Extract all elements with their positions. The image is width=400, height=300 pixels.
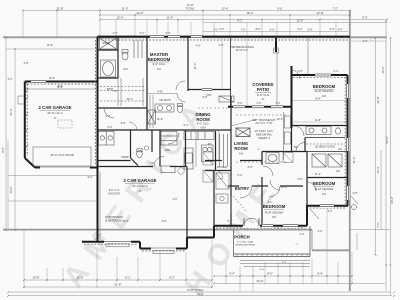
attic access garage <box>58 120 72 128</box>
entry sidelight lines <box>230 196 232 214</box>
svg-text:FLAT CEILING: FLAT CEILING <box>265 211 284 215</box>
NE bed south wall <box>292 125 348 127</box>
right dim col 3 <box>385 21 387 291</box>
powder sink <box>144 146 148 150</box>
svg-text:12'-4": 12'-4" <box>221 7 228 11</box>
mud hall door arc <box>214 170 223 179</box>
svg-text:BUTLER: BUTLER <box>217 166 227 169</box>
hall closet shelves <box>133 40 135 58</box>
svg-text:W/ BROOM FINISH: W/ BROOM FINISH <box>235 245 255 247</box>
interior walls <box>98 37 348 238</box>
left garage south wall <box>35 167 98 169</box>
bottom dim left row 2 <box>24 286 212 288</box>
svg-text:5'-0": 5'-0" <box>362 15 368 19</box>
svg-text:52'-0": 52'-0" <box>385 136 389 143</box>
svg-text:(2) SHELF & ROD: (2) SHELF & ROD <box>315 146 335 149</box>
svg-text:ENTRY: ENTRY <box>235 186 250 191</box>
svg-text:3'-8": 3'-8" <box>121 122 126 125</box>
svg-text:3'-0": 3'-0" <box>220 28 225 31</box>
svg-text:24'-4": 24'-4" <box>256 279 263 283</box>
svg-text:12'-8": 12'-8" <box>316 11 323 15</box>
mud south wall <box>98 160 131 162</box>
window nook south (interior) <box>202 88 212 92</box>
NE bath toilet <box>336 128 341 134</box>
bottom total dim line 2 <box>8 295 392 297</box>
north wall main house <box>98 36 351 38</box>
svg-text:11'-4": 11'-4" <box>193 63 197 70</box>
window bedroom A east mid <box>346 138 350 151</box>
svg-text:24'-0": 24'-0" <box>136 11 143 15</box>
patio interior extension <box>276 52 278 106</box>
svg-text:8'-8": 8'-8" <box>256 28 261 31</box>
svg-text:7'-2": 7'-2" <box>150 162 155 165</box>
hall east wall <box>213 171 215 226</box>
wic rods <box>117 78 119 106</box>
bottom garage south wall west part <box>82 241 140 243</box>
svg-text:2'-8": 2'-8" <box>219 44 224 47</box>
svg-text:PAN.: PAN. <box>165 149 171 152</box>
svg-text:6'-0": 6'-0" <box>257 102 262 105</box>
svg-text:74'-0": 74'-0" <box>196 292 203 296</box>
bottom garage west wall <box>97 168 99 242</box>
svg-text:16'-0 x 8'-0 OH DR: 16'-0 x 8'-0 OH DR <box>50 153 73 157</box>
garage door left wing <box>33 147 91 170</box>
storage box garage <box>161 166 175 173</box>
living room north wall <box>228 106 292 108</box>
svg-text:◊◊◊: ◊◊◊ <box>239 152 244 156</box>
bath wc wall <box>117 37 119 78</box>
svg-text:LIN: LIN <box>338 148 342 151</box>
svg-text:21'-0": 21'-0" <box>9 108 13 115</box>
right eave dim line <box>350 228 390 230</box>
svg-text:◊◊◊: ◊◊◊ <box>157 67 162 71</box>
svg-text:6'-0": 6'-0" <box>108 126 113 129</box>
svg-text:AT 16" O.C.: AT 16" O.C. <box>236 49 249 52</box>
bottom total dim line 1 <box>8 291 390 293</box>
living east builtins <box>284 112 291 160</box>
hall south wall <box>262 151 307 153</box>
svg-text:5'-4": 5'-4" <box>330 28 335 31</box>
svg-text:5'-2": 5'-2" <box>238 174 243 177</box>
wall hatch ticks garage left <box>26 80 28 148</box>
linen closets <box>312 154 326 167</box>
entry double door opening <box>243 218 260 228</box>
window garage north <box>31 80 46 84</box>
bath shower wall <box>98 49 119 51</box>
left dim col 2 <box>14 49 16 230</box>
eave corner small vertical <box>311 230 313 251</box>
living leader line <box>231 120 256 127</box>
right dim col 4 <box>390 38 392 295</box>
svg-text:6'-4": 6'-4" <box>229 272 235 276</box>
interior extra detail lines <box>18 38 308 240</box>
hall closets <box>203 152 213 165</box>
master closet hatch <box>149 95 151 128</box>
svg-text:8'-0": 8'-0" <box>282 262 287 264</box>
master wc toilet <box>178 106 183 113</box>
fixtures mud/laundry <box>99 132 180 173</box>
garage dim texts <box>49 77 63 89</box>
NE bedroom north wall <box>292 74 348 76</box>
svg-text:◊⊙◊: ◊⊙◊ <box>200 126 206 130</box>
SE corner note diagonal <box>310 196 358 219</box>
master east wall <box>187 37 189 91</box>
svg-text:9'-2": 9'-2" <box>169 276 175 280</box>
bath/master divider <box>146 37 148 130</box>
svg-text:2'-0": 2'-0" <box>318 230 323 233</box>
svg-text:3'-0": 3'-0" <box>276 102 281 105</box>
south wall entry/bedroomB <box>214 225 307 227</box>
svg-text:4'-6": 4'-6" <box>113 32 118 35</box>
pantry cabinet <box>161 132 177 146</box>
svg-text:10'-0": 10'-0" <box>281 186 287 189</box>
shower <box>100 38 117 49</box>
living west wall <box>230 96 232 171</box>
powder diagonal <box>131 158 139 166</box>
door arcs <box>154 70 316 191</box>
hall bath tub <box>266 153 279 164</box>
svg-text:6'-0": 6'-0" <box>166 32 171 35</box>
bottom garage south jog <box>139 242 141 249</box>
svg-text:2 CAR GARAGE: 2 CAR GARAGE <box>124 178 157 183</box>
fixtures master bath <box>100 38 186 124</box>
svg-text:◊◊◊: ◊◊◊ <box>322 192 327 196</box>
svg-text:11'-2": 11'-2" <box>315 173 321 176</box>
tub <box>101 60 116 77</box>
driveway lines left <box>6 49 97 229</box>
pantry door arc <box>168 133 179 144</box>
window living north 2 <box>252 105 264 109</box>
porch edge hatch <box>236 254 309 257</box>
svg-text:6'-4": 6'-4" <box>334 70 339 73</box>
upper cabinet band <box>184 132 214 140</box>
top dim row 1 <box>23 10 350 12</box>
svg-text:6'-6": 6'-6" <box>270 28 275 31</box>
svg-text:15'-4": 15'-4" <box>315 98 321 101</box>
master door arc <box>177 94 186 103</box>
garage side steps <box>18 95 24 97</box>
garage door bottom 1 <box>104 240 131 247</box>
svg-text:9'-2": 9'-2" <box>237 18 243 22</box>
windows (white gap + lines) <box>31 35 350 228</box>
wall hatch dashes (insulation) <box>27 40 348 251</box>
svg-text:SHEET 4: SHEET 4 <box>258 136 270 140</box>
patio posts <box>274 48 279 53</box>
porch notes <box>235 241 299 272</box>
top dim row 5 <box>203 31 348 33</box>
master shower <box>148 110 156 124</box>
svg-text:3'-2": 3'-2" <box>328 210 333 213</box>
svg-text:9'-8": 9'-8" <box>162 220 167 223</box>
svg-text:4'-6": 4'-6" <box>218 178 223 181</box>
living ceiling dash <box>236 114 288 116</box>
nook south wall <box>188 89 231 91</box>
powder east wall <box>151 130 153 152</box>
svg-text:PORCH: PORCH <box>234 235 250 240</box>
svg-text:SLAB PER ENG.: SLAB PER ENG. <box>105 220 124 223</box>
svg-text:MA. BATH: MA. BATH <box>159 99 170 102</box>
left dim col 1 <box>5 37 7 230</box>
svg-text:4" CONC. SLAB: 4" CONC. SLAB <box>237 241 253 244</box>
wic south wall <box>98 107 148 109</box>
top dim row 2 <box>100 14 350 16</box>
left garage north wall <box>25 81 98 83</box>
svg-text:21'-8": 21'-8" <box>157 118 163 121</box>
bedroom A south wall <box>306 205 348 207</box>
svg-text:3'-0": 3'-0" <box>173 198 178 201</box>
svg-text:11'-0": 11'-0" <box>122 7 129 11</box>
svg-text:SHWR: SHWR <box>102 42 110 45</box>
garage-entry link wall <box>187 237 214 239</box>
top dim row 4 <box>203 22 387 24</box>
water heater bottom garage <box>178 168 184 174</box>
garage door bottom 2 <box>151 247 176 254</box>
dim texts sides (rotated) <box>1 66 394 227</box>
window bedroom B south <box>283 224 298 228</box>
bottom dim right row 1 <box>214 275 352 277</box>
NE closet rod <box>306 143 345 145</box>
window NE bedroom north <box>315 73 331 77</box>
svg-text:3'-6": 3'-6" <box>298 178 303 181</box>
svg-text:12'-4": 12'-4" <box>259 269 265 271</box>
svg-text:2 CAR GARAGE: 2 CAR GARAGE <box>39 105 72 110</box>
svg-text:PATIO: PATIO <box>257 87 270 92</box>
svg-text:7'-2": 7'-2" <box>332 7 338 11</box>
svg-text:11'-4": 11'-4" <box>167 15 174 19</box>
svg-text:21'-8": 21'-8" <box>47 44 53 47</box>
kitchen south wall <box>205 170 231 172</box>
svg-text:5'-0": 5'-0" <box>228 220 233 223</box>
svg-text:4'-2": 4'-2" <box>214 28 219 31</box>
master vanity <box>155 104 174 112</box>
svg-text:BEDROOM: BEDROOM <box>263 204 286 209</box>
svg-text:TOTAL: TOTAL <box>186 7 195 11</box>
wic shelves <box>100 86 145 88</box>
svg-text:21'-8 x 21'-0: 21'-8 x 21'-0 <box>47 111 63 115</box>
svg-text:21'-0 x 22'-0: 21'-0 x 22'-0 <box>132 184 148 188</box>
living south wall <box>205 160 222 162</box>
svg-text:6'-2": 6'-2" <box>106 115 111 118</box>
entry north wall <box>228 185 239 187</box>
NE closet door arc <box>296 143 305 152</box>
bedroom B door arc <box>269 186 280 197</box>
svg-text:4'-4": 4'-4" <box>338 28 343 31</box>
patio west edge <box>230 38 232 107</box>
svg-text:2'-0": 2'-0" <box>363 40 368 43</box>
garage east wall upper <box>186 167 188 238</box>
svg-text:ROOM: ROOM <box>234 146 248 151</box>
kitchen west wall <box>185 130 187 167</box>
svg-text:BEDROOM: BEDROOM <box>313 181 336 186</box>
svg-text:6'-8": 6'-8" <box>353 192 358 195</box>
svg-text:8'-0": 8'-0" <box>1 147 5 153</box>
svg-text:12'-0": 12'-0" <box>116 15 123 19</box>
hall door arc <box>104 108 114 118</box>
dim texts bottom <box>32 272 322 297</box>
window living north 3 <box>271 105 283 109</box>
NE bath west wall <box>291 126 293 152</box>
svg-text:9'-0" CLG.: 9'-0" CLG. <box>153 62 166 66</box>
svg-text:18'-4": 18'-4" <box>246 11 253 15</box>
island <box>202 145 214 162</box>
master south dim <box>147 93 177 95</box>
west counter band <box>184 148 193 169</box>
svg-text:9'-8": 9'-8" <box>308 28 313 31</box>
scattered dim texts row y31 <box>214 28 343 31</box>
fixtures NE bath / closets <box>266 126 345 167</box>
entry door arcs <box>244 218 252 226</box>
svg-text:BA.: BA. <box>294 146 298 149</box>
window bedroom A east <box>346 84 350 98</box>
svg-text:KIT.: KIT. <box>208 143 212 146</box>
powder west wall <box>130 130 132 158</box>
svg-text:5'-2": 5'-2" <box>140 32 145 35</box>
bar counter <box>219 96 234 102</box>
svg-text:5'-0": 5'-0" <box>113 90 118 93</box>
entry north door arc <box>240 186 252 198</box>
svg-text:4'-0": 4'-0" <box>300 233 305 236</box>
bedroom A west wall <box>306 152 308 206</box>
hall closet B <box>283 153 293 163</box>
svg-text:3'-1": 3'-1" <box>268 201 273 204</box>
svg-text:9'-8": 9'-8" <box>157 90 163 94</box>
label underlines <box>40 62 334 240</box>
NE bedroom west wall <box>291 66 293 128</box>
window master north 2 <box>168 35 180 39</box>
right dim col 2 <box>380 150 382 230</box>
svg-text:W.C.: W.C. <box>123 68 129 71</box>
svg-text:FLAT CEILING: FLAT CEILING <box>315 89 334 93</box>
corridor wall <box>98 129 232 131</box>
svg-text:4'-0": 4'-0" <box>8 78 13 81</box>
svg-text:7'-0": 7'-0" <box>241 28 246 31</box>
svg-text:3'-0": 3'-0" <box>238 102 243 105</box>
svg-text:5'-4": 5'-4" <box>184 124 189 127</box>
window bedroom A south <box>320 204 334 208</box>
svg-text:60'-0": 60'-0" <box>390 196 394 203</box>
svg-text:9'-0": 9'-0" <box>88 176 93 179</box>
bedroom A north wall <box>307 177 348 179</box>
svg-text:9'-8": 9'-8" <box>203 96 208 99</box>
watermark diagonal text <box>57 88 289 300</box>
bottom dim right row 2 <box>214 283 385 285</box>
window entry side <box>262 224 273 228</box>
kitchen east wall <box>215 131 217 171</box>
svg-text:◊◊◊: ◊◊◊ <box>322 94 327 98</box>
porch slab <box>234 226 311 257</box>
room labels <box>39 52 336 240</box>
toilet <box>122 52 128 60</box>
svg-text:8'-1": 8'-1" <box>125 276 131 280</box>
svg-text:2'-8": 2'-8" <box>24 62 29 65</box>
svg-text:10'-8": 10'-8" <box>32 276 39 280</box>
svg-text:6'-2": 6'-2" <box>298 28 303 31</box>
left garage corner diagonal <box>25 158 35 168</box>
fixtures kitchen <box>184 96 234 169</box>
svg-text:9'-6": 9'-6" <box>277 7 283 11</box>
kitchen counter inner <box>195 131 197 167</box>
dim texts top <box>56 3 367 22</box>
svg-text:16'-4": 16'-4" <box>376 166 380 173</box>
svg-text:W.I.C.: W.I.C. <box>127 98 134 101</box>
hall closet column <box>216 173 247 212</box>
garage interior dim <box>26 88 96 90</box>
svg-text:11'-0": 11'-0" <box>77 276 84 280</box>
pantry west wall <box>159 130 161 167</box>
svg-text:11'-8": 11'-8" <box>315 119 321 122</box>
dining dashes <box>198 107 228 109</box>
NE closet west wall <box>304 138 306 152</box>
window bedroom A east 2 <box>346 186 350 200</box>
svg-text:10'-4": 10'-4" <box>123 220 129 223</box>
svg-text:6'-8": 6'-8" <box>248 166 253 169</box>
bedroom B east wall <box>306 206 308 226</box>
entry west wall <box>230 171 232 226</box>
svg-text:LIN.: LIN. <box>336 170 341 173</box>
window living north 1 <box>233 105 245 109</box>
svg-text:5'-8": 5'-8" <box>298 70 303 73</box>
powder toilet <box>137 150 143 157</box>
west wall house + left garage east <box>97 37 99 168</box>
svg-text:24" O.C. TYP.: 24" O.C. TYP. <box>255 121 272 125</box>
right dim col 1 <box>375 38 377 255</box>
svg-text:◊◊◊: ◊◊◊ <box>272 215 277 219</box>
svg-text:PWDR: PWDR <box>121 156 129 159</box>
patio post stub <box>275 38 277 52</box>
svg-text:21'-8": 21'-8" <box>56 7 63 11</box>
washer dryer pair <box>99 132 115 146</box>
svg-text:10'-6": 10'-6" <box>296 18 303 22</box>
svg-text:7'-6": 7'-6" <box>376 222 380 228</box>
bath tub south wall <box>98 77 119 79</box>
NE bath door arc <box>294 126 304 136</box>
window nook north <box>191 35 202 39</box>
bottom garage north wall <box>98 166 154 168</box>
fireplace <box>236 128 250 137</box>
entry west jog wall <box>213 226 215 238</box>
sub labels <box>47 62 333 219</box>
svg-text:8'-0": 8'-0" <box>267 272 273 276</box>
top dim row 3 <box>100 19 387 21</box>
east wall bedroom A <box>347 75 349 206</box>
NE closet shelf wall <box>305 137 345 139</box>
bottom garage east wall <box>186 238 188 249</box>
svg-text:4'-6": 4'-6" <box>196 45 201 48</box>
svg-text:12'-2": 12'-2" <box>381 66 385 73</box>
bottom garage south wall east part <box>140 248 187 250</box>
svg-text:21'-8": 21'-8" <box>114 283 121 287</box>
svg-text:8'-0": 8'-0" <box>58 85 63 88</box>
porch steps <box>240 261 310 267</box>
bedroom B west wall <box>261 152 263 166</box>
svg-text:OH DOOR: OH DOOR <box>108 193 120 196</box>
left garage west wall <box>24 82 26 159</box>
svg-text:FLAT CEILING: FLAT CEILING <box>315 187 334 191</box>
bottom dim left row 1 <box>24 279 212 281</box>
window master north 1 <box>150 35 164 39</box>
scattered small interior texts <box>8 28 368 236</box>
svg-text:21'-8": 21'-8" <box>49 77 55 80</box>
pantry shelves <box>219 134 221 167</box>
svg-text:9'-4": 9'-4" <box>317 272 323 276</box>
svg-text:22'-8": 22'-8" <box>376 96 380 103</box>
svg-text:12'-4": 12'-4" <box>277 118 283 121</box>
NE bath vanity <box>306 127 331 135</box>
svg-text:14'-2": 14'-2" <box>9 186 13 193</box>
svg-text:11'-0": 11'-0" <box>352 157 356 164</box>
exterior walls (dark thick) <box>25 37 350 249</box>
